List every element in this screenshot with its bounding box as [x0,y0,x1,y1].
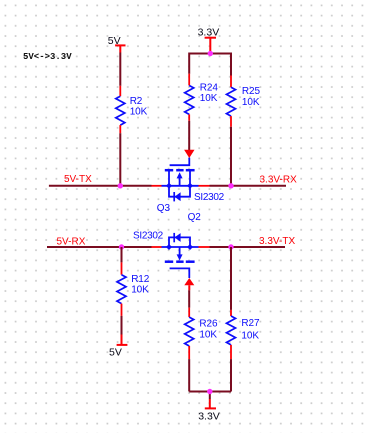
Q2 gate pin arrow [184,278,194,285]
wire R2 to 5V-TX node [119,133,121,186]
junction R27 / 3.3V-TX [228,244,233,249]
svg-text:R27: R27 [241,318,260,329]
svg-text:5V<->3.3V: 5V<->3.3V [23,52,72,62]
junction 3.3V rail [208,51,213,56]
transistor Q3 (SI2302) [162,158,199,202]
wire R26 gate column [188,290,190,307]
wire 5V to R2 [119,53,121,86]
Q2 drain pin [199,246,210,248]
junction 5V-RX / R12 [119,244,124,249]
wire 5V-TX [49,185,152,187]
svg-text:Q3: Q3 [157,203,171,214]
svg-text:10K: 10K [242,97,260,108]
svg-text:Q2: Q2 [188,212,202,223]
svg-text:R25: R25 [242,86,261,97]
wire R24 to Q3 gate [188,121,190,150]
resistor R12 [117,262,126,316]
wire R12 to 5V [121,316,123,335]
resistor R24 [185,74,194,121]
svg-text:SI2302: SI2302 [194,192,225,203]
Q3 drain pin [199,185,210,187]
wire 5V-RX [47,246,152,248]
wire 3.3V bottom stem [209,392,211,400]
svg-text:10K: 10K [199,329,217,340]
svg-text:SI2302: SI2302 [133,231,164,242]
wire R27 to 3.3V rail [230,359,232,391]
svg-text:3.3V: 3.3V [198,411,220,423]
wire R27 top [230,247,232,310]
svg-text:3.3V-TX: 3.3V-TX [259,236,295,247]
svg-text:3.3V-RX: 3.3V-RX [260,174,298,185]
Q2 gate arrow stem [188,285,190,290]
junction 5V-TX / R2 [118,183,123,188]
Q3 gate pin arrow [184,150,194,158]
wire 3.3V bottom rail [189,391,231,393]
wire Q3 to 3.3V-RX [210,185,287,187]
wire Q2 to 3.3V-TX [210,246,286,248]
wire 3.3V stem [209,51,211,54]
svg-text:10K: 10K [131,285,149,296]
wire R26 to 3.3V rail [188,359,190,391]
svg-text:R24: R24 [200,83,219,94]
resistor R26 [185,308,194,360]
junction 3.3V bottom [207,389,212,394]
resistor R2 [116,86,125,133]
wire R25 to 3.3V-RX [230,127,232,186]
resistor R27 [227,310,236,359]
power port 5V (top) [115,45,125,52]
power port 3.3V (bottom) [205,399,216,408]
Q3 source pin [152,185,162,187]
Q2 source pin [152,246,162,248]
junction R25 / 3.3V-RX [228,183,233,188]
svg-text:10K: 10K [200,93,218,104]
svg-text:R12: R12 [131,274,150,285]
svg-text:R26: R26 [199,319,218,330]
svg-text:5V-RX: 5V-RX [57,236,86,247]
svg-text:5V: 5V [109,347,122,359]
power port 5V (bottom) [117,335,128,345]
power port 3.3V (top) [205,38,216,51]
svg-text:5V-TX: 5V-TX [64,174,92,185]
svg-text:10K: 10K [241,331,259,342]
wire 3.3V rail [189,54,231,76]
wire R12 top [121,247,123,262]
svg-text:10K: 10K [130,107,148,118]
resistor R25 [227,76,236,127]
transistor Q2 (SI2302) [162,233,199,278]
